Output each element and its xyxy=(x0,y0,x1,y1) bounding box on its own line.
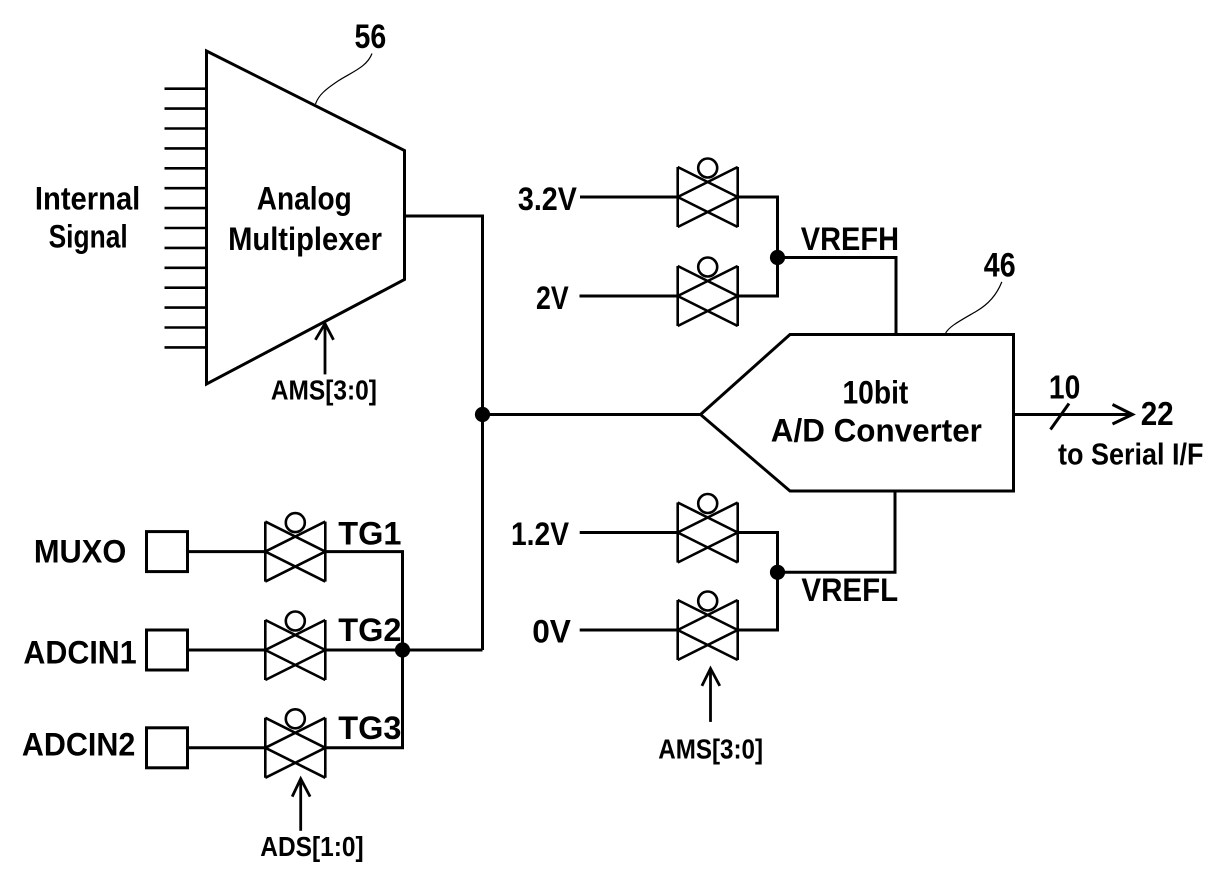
svg-text:VREFL: VREFL xyxy=(801,572,898,608)
svg-text:10: 10 xyxy=(1049,369,1080,406)
svg-text:A/D Converter: A/D Converter xyxy=(771,413,982,449)
svg-text:to Serial I/F: to Serial I/F xyxy=(1058,437,1204,472)
svg-text:MUXO: MUXO xyxy=(34,534,126,570)
svg-text:2V: 2V xyxy=(536,280,569,316)
svg-text:1.2V: 1.2V xyxy=(511,516,570,552)
svg-text:Internal: Internal xyxy=(35,180,140,216)
svg-text:Analog: Analog xyxy=(257,181,352,217)
svg-text:AMS[3:0]: AMS[3:0] xyxy=(271,375,377,406)
svg-text:ADS[1:0]: ADS[1:0] xyxy=(260,831,363,862)
svg-text:ADCIN1: ADCIN1 xyxy=(23,635,136,671)
svg-text:Signal: Signal xyxy=(49,219,128,255)
svg-text:0V: 0V xyxy=(532,614,571,650)
svg-text:22: 22 xyxy=(1141,395,1174,432)
svg-text:10bit: 10bit xyxy=(843,374,909,410)
svg-text:56: 56 xyxy=(355,18,387,56)
svg-text:TG1: TG1 xyxy=(338,515,401,551)
svg-text:Multiplexer: Multiplexer xyxy=(228,221,382,257)
svg-text:ADCIN2: ADCIN2 xyxy=(22,727,135,763)
svg-text:AMS[3:0]: AMS[3:0] xyxy=(658,734,763,765)
svg-text:3.2V: 3.2V xyxy=(518,181,578,217)
svg-text:46: 46 xyxy=(984,247,1016,285)
svg-text:VREFH: VREFH xyxy=(801,221,899,257)
svg-text:TG3: TG3 xyxy=(338,710,401,746)
svg-text:TG2: TG2 xyxy=(338,612,401,648)
